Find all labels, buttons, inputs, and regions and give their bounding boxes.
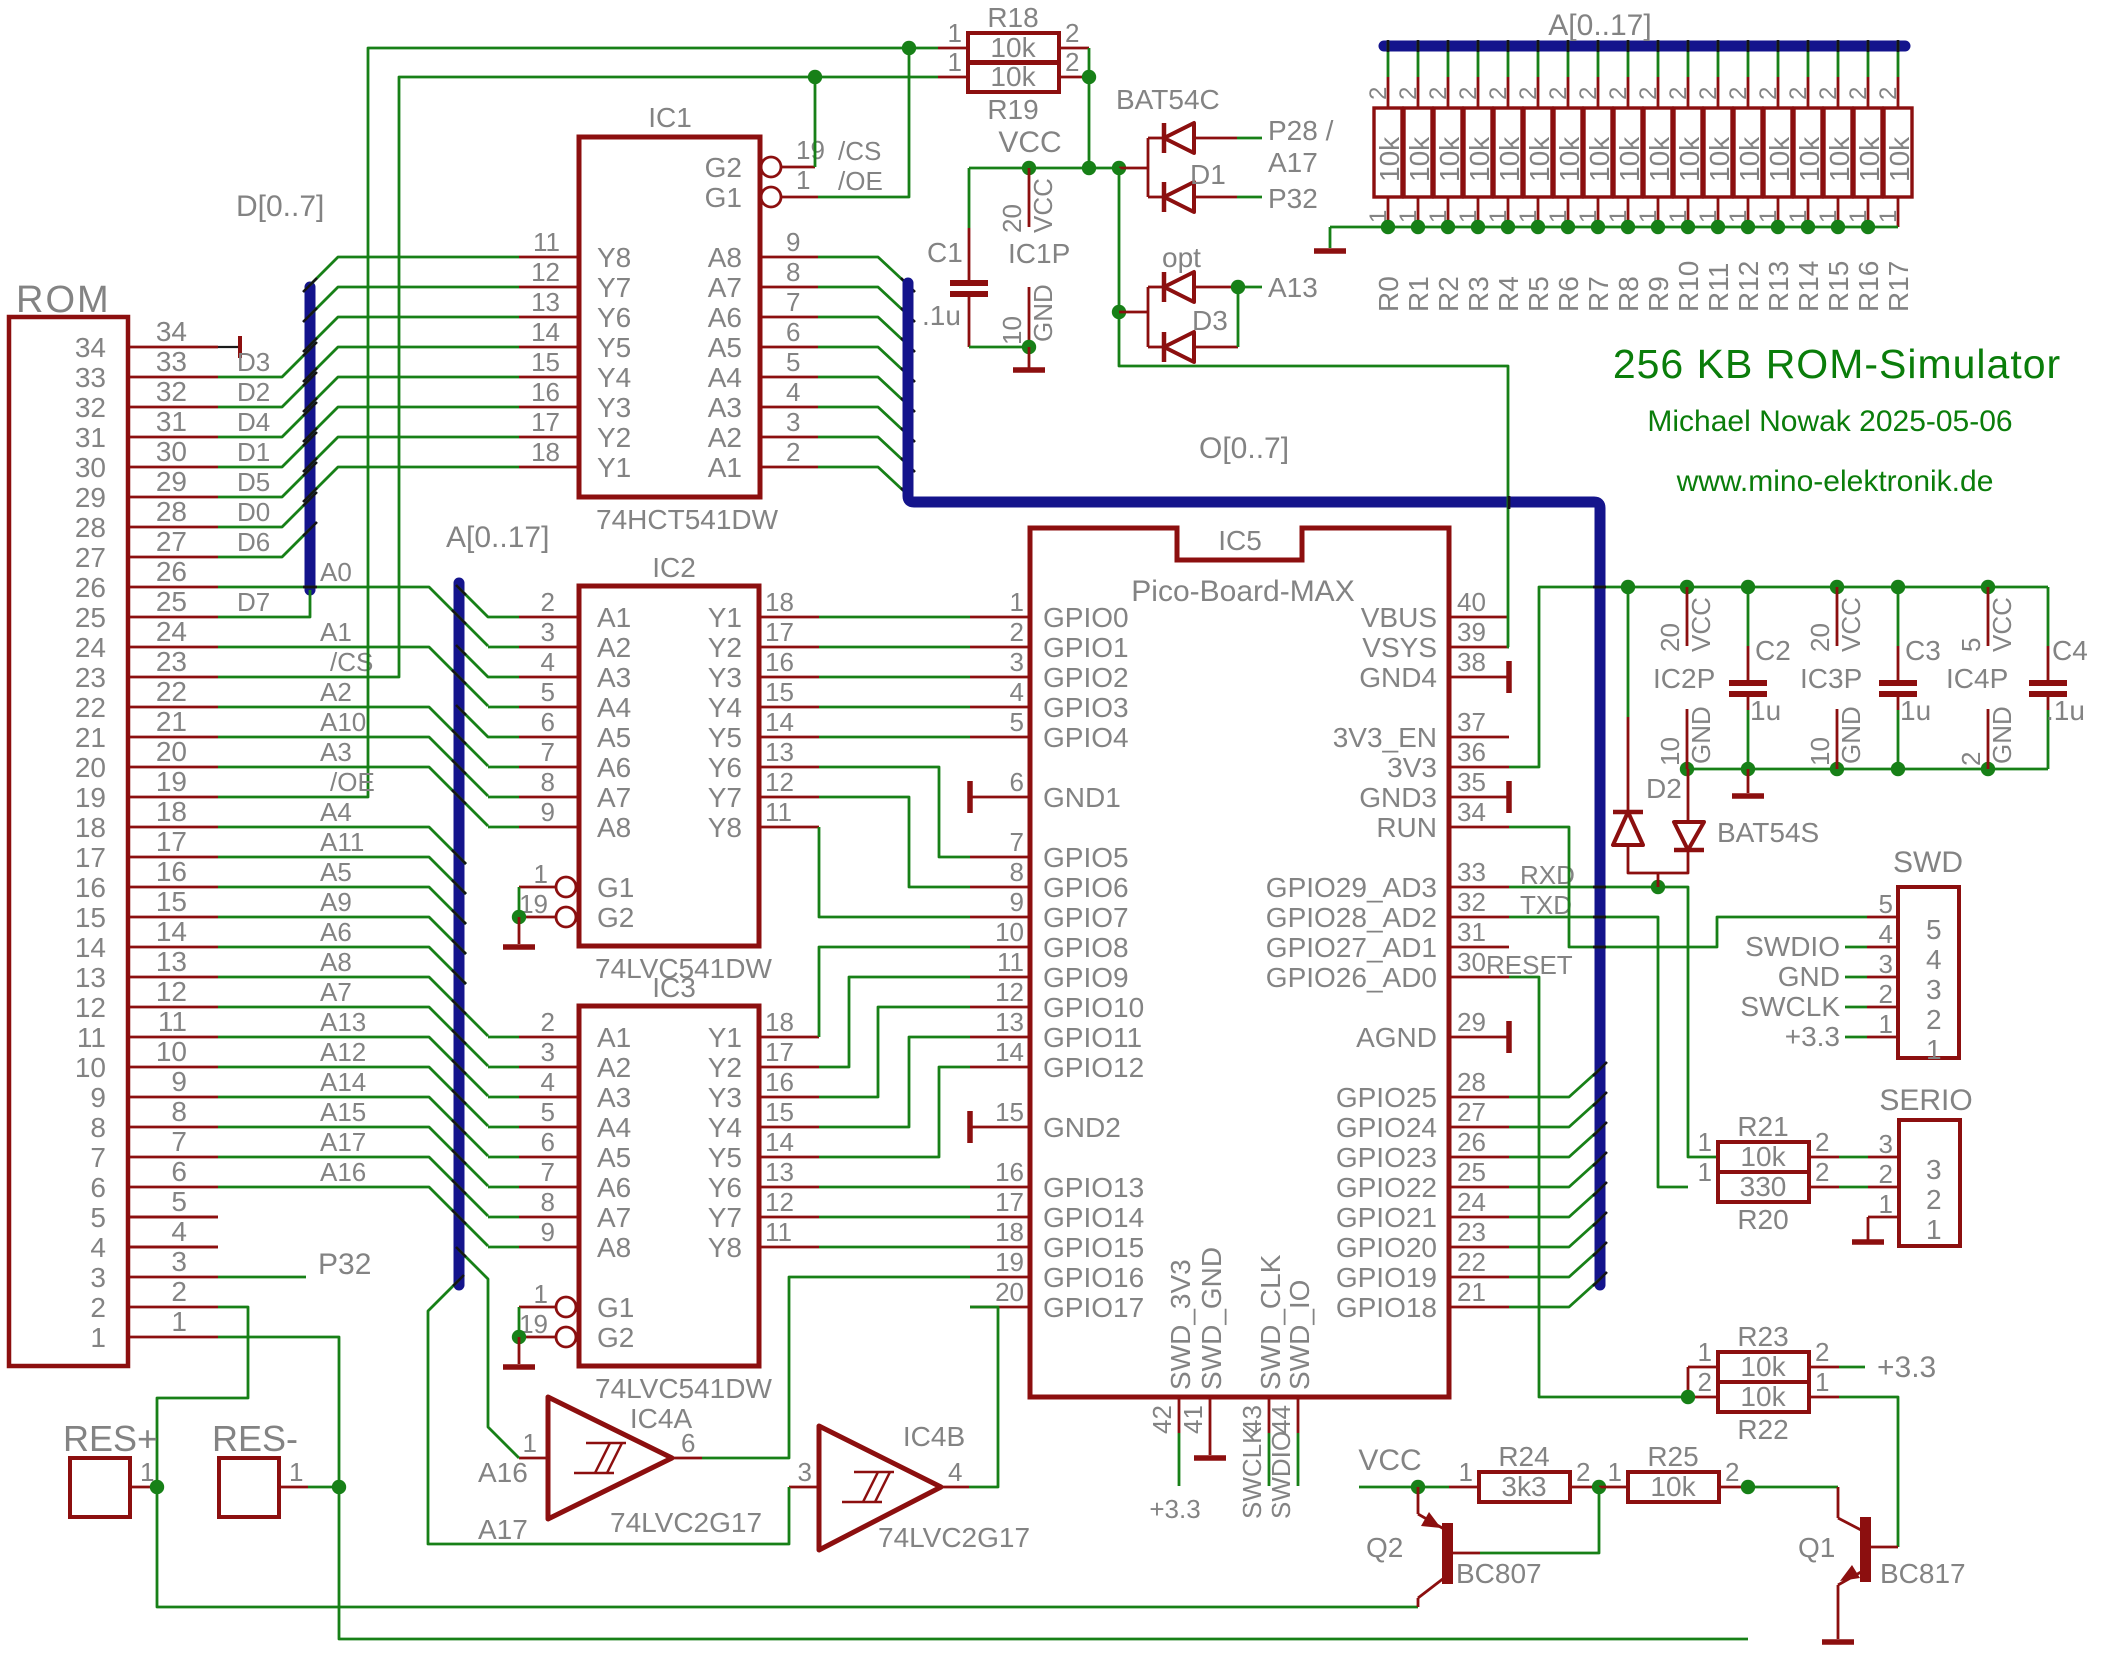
- svg-text:RES-: RES-: [212, 1418, 298, 1459]
- svg-text:10k: 10k: [1524, 136, 1555, 182]
- svg-text:D0: D0: [237, 497, 270, 527]
- resistor R15 10k: [1815, 40, 1855, 312]
- svg-text:D5: D5: [237, 467, 270, 497]
- svg-text:Y7: Y7: [708, 782, 742, 813]
- svg-text:2: 2: [1395, 87, 1422, 100]
- svg-text:22: 22: [1457, 1247, 1486, 1277]
- svg-text:+3.3: +3.3: [1785, 1021, 1840, 1052]
- svg-text:SERIO: SERIO: [1879, 1084, 1972, 1117]
- svg-text:1: 1: [523, 1428, 537, 1458]
- resistor R19 10k: [948, 47, 1080, 125]
- resistor R9 10k: [1635, 40, 1675, 312]
- svg-text:39: 39: [1457, 617, 1486, 647]
- svg-text:G2: G2: [705, 152, 742, 183]
- svg-text:GPIO27_AD1: GPIO27_AD1: [1266, 932, 1437, 963]
- svg-text:1: 1: [1010, 587, 1024, 617]
- wire D5 (ROM pin 29 to D bus): [218, 462, 317, 497]
- IC IC1 74HCT541DW: [519, 102, 883, 535]
- ground IC2 G1 G2: [503, 887, 535, 947]
- ground Q1 emitter: [1822, 1639, 1854, 1645]
- ground below C2: [1732, 769, 1764, 796]
- svg-text:9: 9: [786, 227, 800, 257]
- svg-text:Y3: Y3: [597, 392, 631, 423]
- svg-text:1: 1: [948, 18, 962, 48]
- svg-text:3: 3: [1879, 1129, 1893, 1159]
- wire IC3 Y4 to IC5 GPIO11: [819, 1037, 970, 1127]
- svg-text:D3: D3: [237, 347, 270, 377]
- svg-text:GPIO10: GPIO10: [1043, 992, 1144, 1023]
- svg-text:10k: 10k: [1740, 1141, 1786, 1172]
- svg-text:Y7: Y7: [708, 1202, 742, 1233]
- svg-text:AGND: AGND: [1356, 1022, 1437, 1053]
- svg-text:SWD_CLK: SWD_CLK: [1255, 1254, 1286, 1390]
- svg-text:23: 23: [75, 662, 106, 693]
- wire IC1 A7 to O bus: [818, 287, 915, 322]
- svg-text:19: 19: [995, 1247, 1024, 1277]
- svg-text:A[0..17]: A[0..17]: [446, 521, 549, 554]
- svg-text:GPIO24: GPIO24: [1336, 1112, 1437, 1143]
- svg-text:BAT54C: BAT54C: [1116, 84, 1220, 115]
- svg-text:3V3_EN: 3V3_EN: [1333, 722, 1437, 753]
- resistor R21 10k: [1698, 1111, 1830, 1172]
- svg-text:SWD: SWD: [1893, 846, 1963, 879]
- svg-text:opt: opt: [1162, 242, 1201, 273]
- svg-text:15: 15: [75, 902, 106, 933]
- svg-text:SWCLK: SWCLK: [1237, 1426, 1267, 1519]
- svg-text:1: 1: [1459, 1457, 1473, 1487]
- svg-text:Y8: Y8: [708, 812, 742, 843]
- svg-text:12: 12: [531, 257, 560, 287]
- svg-text:30: 30: [1457, 947, 1486, 977]
- svg-text:3: 3: [1926, 974, 1942, 1005]
- svg-text:GPIO4: GPIO4: [1043, 722, 1129, 753]
- svg-text:26: 26: [156, 556, 187, 587]
- svg-text:1: 1: [1815, 1367, 1829, 1397]
- wire A17 from bus to IC4B input: [428, 1275, 789, 1545]
- svg-text:28: 28: [156, 496, 187, 527]
- svg-text:R11: R11: [1703, 263, 1734, 312]
- svg-text:34: 34: [1457, 797, 1486, 827]
- svg-text:A7: A7: [320, 977, 352, 1007]
- svg-text:19: 19: [75, 782, 106, 813]
- svg-text:IC1P: IC1P: [1008, 238, 1070, 269]
- svg-text:10k: 10k: [1884, 136, 1915, 182]
- wire IC4B output to IC5 GPIO17: [969, 1307, 998, 1487]
- svg-text:5: 5: [1926, 914, 1942, 945]
- svg-text:34: 34: [156, 316, 187, 347]
- svg-text:17: 17: [765, 1037, 794, 1067]
- bus D[0..7]: [236, 190, 324, 590]
- svg-text:10k: 10k: [1404, 136, 1435, 182]
- svg-text:11: 11: [77, 1022, 106, 1053]
- svg-text:R14: R14: [1793, 261, 1824, 312]
- svg-text:16: 16: [765, 647, 794, 677]
- wire IC5 right pin row 1277 to O bus: [1509, 1242, 1607, 1277]
- svg-text:Y4: Y4: [597, 362, 631, 393]
- svg-text:R12: R12: [1733, 261, 1764, 312]
- svg-text:R9: R9: [1643, 276, 1674, 312]
- svg-text:A11: A11: [320, 827, 364, 857]
- svg-text:R0: R0: [1373, 276, 1404, 312]
- svg-text:A5: A5: [597, 722, 631, 753]
- svg-text:18: 18: [765, 587, 794, 617]
- svg-text:D4: D4: [237, 407, 270, 437]
- svg-text:1u: 1u: [1750, 695, 1781, 726]
- wire /OE (ROM pin 19 up to R18): [218, 48, 968, 797]
- wire A bus to IC2 A4: [488, 706, 519, 709]
- svg-text:26: 26: [1457, 1127, 1486, 1157]
- svg-text:GPIO26_AD0: GPIO26_AD0: [1266, 962, 1437, 993]
- svg-text:6: 6: [171, 1156, 187, 1187]
- svg-text:Y2: Y2: [708, 1052, 742, 1083]
- svg-text:14: 14: [765, 1127, 794, 1157]
- connector RES+: [63, 1418, 164, 1517]
- svg-text:A6: A6: [597, 752, 631, 783]
- svg-text:A6: A6: [320, 917, 352, 947]
- wire D0 (ROM pin 28 to D bus): [218, 492, 317, 527]
- wire R25 pin2 to Q1 collector: [1719, 1480, 1838, 1494]
- svg-text:3: 3: [90, 1262, 106, 1293]
- ground IC5 GND1: [967, 781, 973, 813]
- svg-text:VBUS: VBUS: [1361, 602, 1437, 633]
- resistor R16 10k: [1845, 40, 1885, 312]
- wire IC1 A2 to O bus: [818, 437, 915, 472]
- svg-text:VCC: VCC: [1358, 1444, 1421, 1477]
- diode D2 BAT54S: [1613, 587, 1819, 887]
- wire 3V3 rail from IC5 pin36: [1509, 580, 2048, 767]
- svg-text:10k: 10k: [1740, 1381, 1786, 1412]
- svg-text:20: 20: [75, 752, 106, 783]
- svg-text:IC4P: IC4P: [1946, 663, 2008, 694]
- wire IC5 right pin row 1217 to O bus: [1509, 1182, 1607, 1217]
- svg-text:A6: A6: [708, 302, 742, 333]
- svg-text:10k: 10k: [1614, 136, 1645, 182]
- wire A4 (ROM pin 18 across A bus): [218, 797, 466, 864]
- svg-text:A8: A8: [597, 812, 631, 843]
- wire A bus to IC3 A8: [488, 1246, 519, 1249]
- wire VCC down to D3 and VSYS: [1112, 168, 1509, 647]
- label IC1P: [1008, 238, 1070, 269]
- svg-text:22: 22: [75, 692, 106, 723]
- svg-text:R4: R4: [1493, 276, 1524, 312]
- svg-text:G1: G1: [597, 872, 634, 903]
- svg-text:11: 11: [765, 797, 792, 827]
- svg-text:2: 2: [1725, 1457, 1739, 1487]
- svg-text:3: 3: [786, 407, 800, 437]
- svg-text:15: 15: [765, 1097, 794, 1127]
- svg-text:A3: A3: [708, 392, 742, 423]
- svg-text:4: 4: [1879, 919, 1893, 949]
- svg-text:A14: A14: [320, 1067, 366, 1097]
- svg-text:8: 8: [541, 1187, 555, 1217]
- svg-text:2: 2: [1926, 1004, 1942, 1035]
- svg-text:A5: A5: [320, 857, 352, 887]
- wire D1 anode P28/A17: [1237, 115, 1334, 178]
- buffer IC4B 74LVC2G17: [789, 1421, 1030, 1553]
- wire IC3 Y3 to IC5 GPIO10: [819, 1007, 970, 1097]
- wire A13 (ROM pin 11 across A bus): [218, 1007, 488, 1096]
- ground IC3 G1 G2: [503, 1307, 535, 1367]
- svg-text:A3: A3: [320, 737, 352, 767]
- wire IC1 Y3 to D bus: [303, 407, 519, 442]
- svg-text:A1: A1: [597, 1022, 631, 1053]
- svg-text:23: 23: [156, 646, 187, 677]
- svg-text:IC4A: IC4A: [630, 1403, 693, 1434]
- svg-text:R10: R10: [1673, 261, 1704, 312]
- svg-text:17: 17: [531, 407, 560, 437]
- svg-text:C2: C2: [1755, 635, 1791, 666]
- svg-text:8: 8: [171, 1096, 187, 1127]
- svg-text:TXD: TXD: [1520, 890, 1572, 920]
- svg-text:4: 4: [1010, 677, 1024, 707]
- svg-text:330: 330: [1740, 1171, 1787, 1202]
- svg-text:14: 14: [156, 916, 187, 947]
- svg-text:30: 30: [75, 452, 106, 483]
- svg-text:10k: 10k: [1374, 136, 1405, 182]
- svg-text:D1: D1: [237, 437, 270, 467]
- svg-text:Michael Nowak 2025-05-06: Michael Nowak 2025-05-06: [1647, 405, 2012, 438]
- svg-text:10: 10: [995, 917, 1024, 947]
- wire R24 pin2 to R25 pin1: [1571, 1480, 1628, 1494]
- svg-text:10: 10: [156, 1036, 187, 1067]
- svg-text:6: 6: [786, 317, 800, 347]
- svg-text:R21: R21: [1737, 1111, 1788, 1142]
- svg-text:14: 14: [995, 1037, 1024, 1067]
- wire IC1 Y8 to D bus: [303, 257, 519, 292]
- svg-text:8: 8: [541, 767, 555, 797]
- svg-text:32: 32: [1457, 887, 1486, 917]
- capacitor C4 .1u: [2029, 587, 2088, 769]
- wire IC5 right pin row 1097 to O bus: [1509, 1062, 1607, 1097]
- wire IC2 Y6 to IC5 GPIO5: [819, 767, 970, 857]
- svg-text:2: 2: [1576, 1457, 1590, 1487]
- svg-text:10: 10: [997, 316, 1027, 345]
- ground IC5 GND4: [1506, 661, 1512, 693]
- wire A5 (ROM pin 16 across A bus): [218, 857, 466, 924]
- svg-text:27: 27: [75, 542, 106, 573]
- svg-text:11: 11: [765, 1217, 792, 1247]
- wire RUN to SWD pin 5: [1509, 827, 1867, 947]
- svg-text:2: 2: [1665, 87, 1692, 100]
- svg-text:38: 38: [1457, 647, 1486, 677]
- svg-text:13: 13: [765, 737, 794, 767]
- svg-text:GPIO25: GPIO25: [1336, 1082, 1437, 1113]
- svg-text:18: 18: [75, 812, 106, 843]
- svg-text:14: 14: [75, 932, 106, 963]
- wire D7 (ROM pin 25 to D bus end): [218, 587, 310, 617]
- svg-text:33: 33: [1457, 857, 1486, 887]
- svg-text:R8: R8: [1613, 276, 1644, 312]
- svg-text:2: 2: [1695, 87, 1722, 100]
- svg-text:1: 1: [1608, 1457, 1622, 1487]
- svg-text:A2: A2: [708, 422, 742, 453]
- wire R24 pin1: [1418, 1486, 1479, 1489]
- svg-text:VCC: VCC: [998, 126, 1061, 159]
- wire VCC to R24: [1359, 1480, 1425, 1494]
- svg-text:Y3: Y3: [708, 1082, 742, 1113]
- svg-text:R2: R2: [1433, 276, 1464, 312]
- wire D1 anode P32: [1237, 183, 1318, 214]
- svg-text:9: 9: [541, 797, 555, 827]
- svg-text:G2: G2: [597, 902, 634, 933]
- svg-text:10k: 10k: [1824, 136, 1855, 182]
- wire D3 (ROM pin 33 to D bus): [218, 342, 317, 377]
- svg-text:GPIO29_AD3: GPIO29_AD3: [1266, 872, 1437, 903]
- transistor Q2 BC807: [1366, 1487, 1542, 1607]
- svg-text:2: 2: [1635, 87, 1662, 100]
- svg-text:20: 20: [997, 204, 1027, 233]
- svg-text:GPIO21: GPIO21: [1336, 1202, 1437, 1233]
- svg-text:A17: A17: [478, 1514, 528, 1545]
- svg-text:SWD_IO: SWD_IO: [1284, 1280, 1315, 1390]
- svg-text:14: 14: [531, 317, 560, 347]
- power pins IC2P: [1653, 587, 1716, 769]
- wire TXD to R20: [1509, 917, 1688, 1187]
- svg-text:1: 1: [1698, 1337, 1712, 1367]
- wire IC1 G1 to /OE net: [818, 41, 916, 197]
- resistor R0 10k: [1365, 40, 1405, 312]
- svg-text:GND3: GND3: [1359, 782, 1437, 813]
- svg-text:10: 10: [75, 1052, 106, 1083]
- svg-text:A2: A2: [320, 677, 352, 707]
- svg-text:11: 11: [158, 1006, 187, 1037]
- no-connect pin 34 terminator: [218, 336, 240, 358]
- svg-text:1: 1: [1875, 210, 1902, 223]
- svg-text:A0: A0: [320, 557, 352, 587]
- svg-text:IC4B: IC4B: [903, 1421, 965, 1452]
- wire Q2 base to R24 pin2: [1480, 1487, 1599, 1553]
- svg-text:2: 2: [1879, 979, 1893, 1009]
- wire A bus to IC3 A6: [488, 1186, 519, 1189]
- svg-text:GPIO19: GPIO19: [1336, 1262, 1437, 1293]
- svg-text:24: 24: [1457, 1187, 1486, 1217]
- wire A bus to IC2 A6: [488, 766, 519, 769]
- svg-text:12: 12: [75, 992, 106, 1023]
- ground IC5 GND2: [967, 1111, 973, 1143]
- power pins IC3P: [1800, 587, 1866, 769]
- svg-text:2: 2: [1926, 1184, 1942, 1215]
- svg-text:27: 27: [156, 526, 187, 557]
- diode D3 opt BAT54C: [1119, 242, 1238, 362]
- svg-text:R3: R3: [1463, 276, 1494, 312]
- svg-text:10: 10: [1805, 737, 1835, 766]
- svg-text:VCC: VCC: [1686, 597, 1716, 652]
- svg-text:GPIO5: GPIO5: [1043, 842, 1129, 873]
- svg-text:IC2P: IC2P: [1653, 663, 1715, 694]
- wire IC1 A5 to O bus: [818, 347, 915, 382]
- svg-text:D[0..7]: D[0..7]: [236, 190, 324, 223]
- wire A bus to IC3 A5: [488, 1156, 519, 1159]
- svg-text:10k: 10k: [990, 32, 1036, 63]
- svg-text:17: 17: [765, 617, 794, 647]
- svg-text:A1: A1: [708, 452, 742, 483]
- svg-text:10: 10: [1655, 737, 1685, 766]
- svg-text:A[0..17]: A[0..17]: [1548, 9, 1651, 42]
- svg-text:D2: D2: [237, 377, 270, 407]
- svg-text:A13: A13: [1268, 272, 1318, 303]
- svg-text:2: 2: [1725, 87, 1752, 100]
- resistor R2 10k: [1425, 40, 1465, 312]
- svg-text:4: 4: [90, 1232, 106, 1263]
- resistor R7 10k: [1575, 40, 1615, 312]
- resistor R25 10k: [1608, 1441, 1740, 1502]
- svg-text:2: 2: [1875, 87, 1902, 100]
- svg-text:10k: 10k: [1644, 136, 1675, 182]
- wire A bus to IC2 A8: [488, 826, 519, 829]
- resistor R18 10k: [948, 2, 1080, 63]
- wire A bus to IC2 A5: [456, 705, 519, 737]
- svg-text:2: 2: [1785, 87, 1812, 100]
- wire A12 (ROM pin 10 across A bus): [218, 1037, 488, 1126]
- svg-text:GPIO17: GPIO17: [1043, 1292, 1144, 1323]
- svg-text:2: 2: [1545, 87, 1572, 100]
- svg-text:3: 3: [171, 1246, 187, 1277]
- svg-text:29: 29: [1457, 1007, 1486, 1037]
- svg-text:Q2: Q2: [1366, 1532, 1403, 1563]
- wire IC2 Y1 to IC5 GPIO0: [819, 616, 970, 619]
- svg-text:A3: A3: [597, 1082, 631, 1113]
- buffer IC4A 74LVC2G17: [519, 1397, 762, 1538]
- transistor Q1 BC817: [1798, 1487, 1966, 1639]
- svg-text:IC5: IC5: [1218, 525, 1262, 556]
- svg-text:2: 2: [1515, 87, 1542, 100]
- svg-text:2: 2: [1879, 1159, 1893, 1189]
- wire IC1 A4 to O bus: [818, 377, 915, 412]
- svg-text:GND1: GND1: [1043, 782, 1121, 813]
- svg-text:74LVC2G17: 74LVC2G17: [610, 1507, 762, 1538]
- power pin IC1P VCC 20: [997, 168, 1058, 233]
- svg-text:A4: A4: [320, 797, 352, 827]
- svg-text:ROM: ROM: [16, 279, 111, 321]
- power pins IC4P: [1946, 587, 2017, 769]
- svg-text:BAT54S: BAT54S: [1717, 817, 1819, 848]
- resistor R20 330: [1698, 1157, 1830, 1235]
- svg-text:Y1: Y1: [708, 602, 742, 633]
- svg-text:16: 16: [995, 1157, 1024, 1187]
- svg-text:A1: A1: [597, 602, 631, 633]
- svg-text:17: 17: [995, 1187, 1024, 1217]
- svg-text:D2: D2: [1646, 773, 1682, 804]
- svg-text:15: 15: [765, 677, 794, 707]
- svg-text:SWDIO: SWDIO: [1266, 1431, 1296, 1519]
- svg-text:1: 1: [534, 1279, 548, 1309]
- svg-text:R15: R15: [1823, 261, 1854, 312]
- svg-text:3: 3: [1879, 949, 1893, 979]
- wire ROM pin 1 to RES- and R25 rail: [218, 1337, 1748, 1639]
- svg-text:Y4: Y4: [708, 692, 742, 723]
- wire IC1 Y6 to D bus: [303, 317, 519, 352]
- svg-text:R23: R23: [1737, 1321, 1788, 1352]
- wire D3 anodes to A13: [1231, 272, 1318, 347]
- resistor R22 10k: [1698, 1367, 1830, 1445]
- wire IC2 Y4 to IC5 GPIO3: [819, 706, 970, 709]
- svg-text:Y2: Y2: [597, 422, 631, 453]
- svg-text:4: 4: [171, 1216, 187, 1247]
- svg-text:GND: GND: [1987, 706, 2017, 764]
- svg-text:GPIO1: GPIO1: [1043, 632, 1129, 663]
- svg-text:D1: D1: [1190, 159, 1226, 190]
- svg-text:31: 31: [156, 406, 187, 437]
- svg-text:25: 25: [1457, 1157, 1486, 1187]
- svg-text:P28 /: P28 /: [1268, 115, 1334, 146]
- wire IC2 Y8 to IC5 GPIO7: [819, 827, 970, 917]
- svg-text:GPIO0: GPIO0: [1043, 602, 1129, 633]
- svg-text:28: 28: [1457, 1067, 1486, 1097]
- svg-text:GPIO2: GPIO2: [1043, 662, 1129, 693]
- resistor R1 10k: [1395, 40, 1435, 312]
- svg-text:10k: 10k: [1494, 136, 1525, 182]
- svg-text:1: 1: [1926, 1034, 1942, 1065]
